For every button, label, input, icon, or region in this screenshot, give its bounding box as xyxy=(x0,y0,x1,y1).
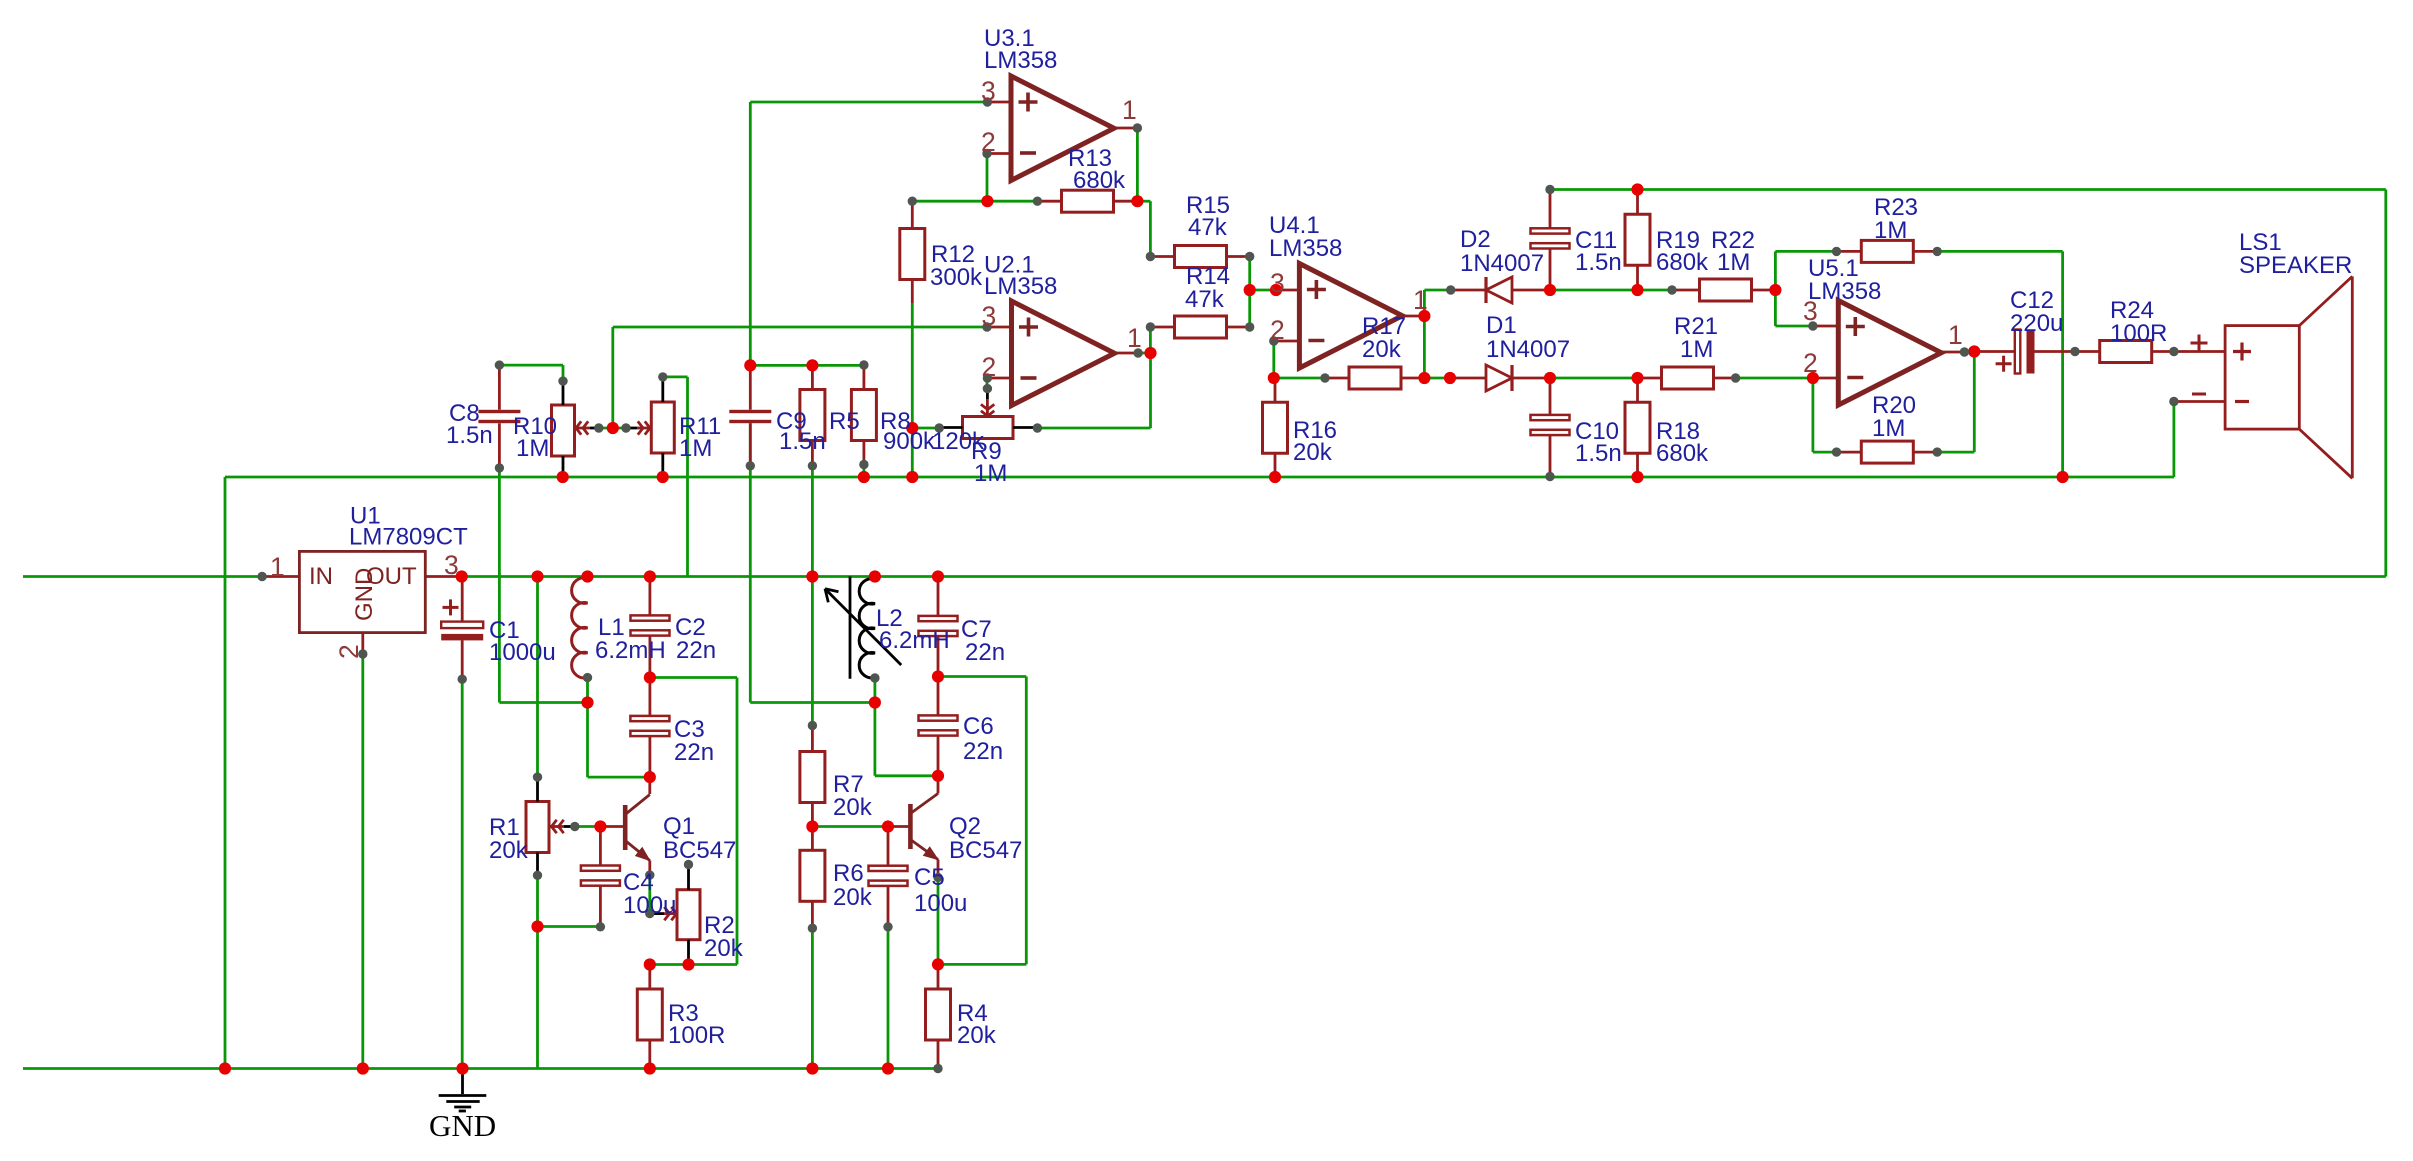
svg-text:1: 1 xyxy=(1127,323,1142,353)
svg-text:1.5n: 1.5n xyxy=(446,422,493,449)
svg-text:3: 3 xyxy=(444,550,459,580)
svg-text:1: 1 xyxy=(1122,95,1137,125)
svg-text:22n: 22n xyxy=(676,637,716,664)
svg-text:GND: GND xyxy=(351,568,378,621)
svg-text:47k: 47k xyxy=(1185,286,1225,313)
svg-text:3: 3 xyxy=(1803,296,1818,326)
svg-text:22n: 22n xyxy=(963,738,1003,765)
svg-text:Q2: Q2 xyxy=(949,813,981,840)
svg-text:100R: 100R xyxy=(668,1022,725,1049)
svg-text:LM358: LM358 xyxy=(984,273,1057,300)
svg-text:2: 2 xyxy=(1803,348,1818,378)
svg-text:LM358: LM358 xyxy=(1269,235,1342,262)
svg-text:1M: 1M xyxy=(1872,415,1905,442)
svg-text:1M: 1M xyxy=(679,435,712,462)
svg-text:1.5n: 1.5n xyxy=(1575,440,1622,467)
svg-text:C5: C5 xyxy=(914,864,945,891)
svg-text:6.2mH: 6.2mH xyxy=(595,637,666,664)
svg-text:1M: 1M xyxy=(1874,217,1907,244)
svg-text:680k: 680k xyxy=(1656,440,1709,467)
svg-text:100u: 100u xyxy=(914,890,967,917)
svg-text:20k: 20k xyxy=(833,884,873,911)
svg-text:3: 3 xyxy=(981,76,996,106)
svg-text:680k: 680k xyxy=(1073,167,1126,194)
svg-text:GND: GND xyxy=(429,1108,496,1143)
svg-text:R6: R6 xyxy=(833,860,864,887)
svg-text:1.5n: 1.5n xyxy=(779,428,826,455)
svg-text:20k: 20k xyxy=(704,935,744,962)
svg-text:1M: 1M xyxy=(1680,336,1713,363)
svg-text:BC547: BC547 xyxy=(663,837,736,864)
svg-text:100u: 100u xyxy=(623,892,676,919)
svg-text:6.2mH: 6.2mH xyxy=(879,627,950,654)
svg-text:2: 2 xyxy=(982,352,997,382)
svg-text:47k: 47k xyxy=(1188,214,1228,241)
svg-text:SPEAKER: SPEAKER xyxy=(2239,252,2352,279)
svg-text:1: 1 xyxy=(1948,320,1963,350)
svg-text:100R: 100R xyxy=(2110,320,2167,347)
svg-text:LM358: LM358 xyxy=(1808,278,1881,305)
svg-text:Q1: Q1 xyxy=(663,813,695,840)
svg-text:1: 1 xyxy=(270,552,285,582)
svg-text:D2: D2 xyxy=(1460,226,1491,253)
svg-text:1.5n: 1.5n xyxy=(1575,249,1622,276)
svg-text:220u: 220u xyxy=(2010,310,2063,337)
svg-text:1: 1 xyxy=(1413,285,1428,315)
svg-text:1M: 1M xyxy=(516,435,549,462)
svg-text:680k: 680k xyxy=(1656,249,1709,276)
svg-text:2: 2 xyxy=(1270,315,1285,345)
svg-text:300k: 300k xyxy=(930,264,983,291)
svg-text:20k: 20k xyxy=(1293,439,1333,466)
svg-text:1M: 1M xyxy=(974,460,1007,487)
svg-text:20k: 20k xyxy=(489,837,529,864)
svg-text:BC547: BC547 xyxy=(949,837,1022,864)
svg-text:22n: 22n xyxy=(674,739,714,766)
svg-text:2: 2 xyxy=(981,127,996,157)
svg-text:2: 2 xyxy=(334,644,364,659)
svg-text:R5: R5 xyxy=(829,408,860,435)
svg-text:3: 3 xyxy=(1270,268,1285,298)
svg-text:20k: 20k xyxy=(957,1022,997,1049)
svg-text:LM358: LM358 xyxy=(984,47,1057,74)
svg-text:1M: 1M xyxy=(1717,249,1750,276)
svg-text:22n: 22n xyxy=(965,639,1005,666)
svg-text:1000u: 1000u xyxy=(489,639,556,666)
svg-text:3: 3 xyxy=(982,301,997,331)
svg-text:D1: D1 xyxy=(1486,312,1517,339)
svg-text:C6: C6 xyxy=(963,713,994,740)
svg-text:R8: R8 xyxy=(880,408,911,435)
svg-text:IN: IN xyxy=(309,563,333,590)
svg-text:20k: 20k xyxy=(1362,336,1402,363)
svg-text:1N4007: 1N4007 xyxy=(1486,336,1570,363)
svg-text:1N4007: 1N4007 xyxy=(1460,250,1544,277)
svg-text:20k: 20k xyxy=(833,794,873,821)
svg-text:LM7809CT: LM7809CT xyxy=(349,524,468,551)
